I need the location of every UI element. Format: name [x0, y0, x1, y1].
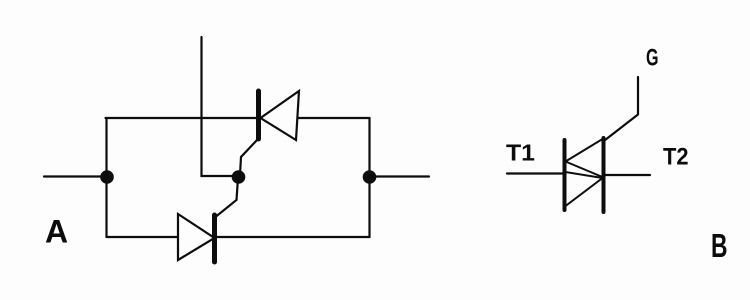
- svg-text:T1: T1: [506, 140, 535, 166]
- node: left junction dot: [100, 170, 114, 184]
- wire: gate feed vertical from top: [202, 37, 239, 176]
- triac B upper triangle (apex on left bar): [566, 139, 603, 177]
- thyristor SCR1 cathode bar: [256, 91, 261, 139]
- wire: T1 lead of triac B: [507, 172, 565, 174]
- wire: SCR2 gate lead to center node: [216, 178, 238, 217]
- thyristor SCR2 cathode bar: [212, 215, 217, 262]
- svg-text:T2: T2: [663, 144, 689, 171]
- wire: right vertical side of loop A: [368, 118, 370, 237]
- wire: right external lead of circuit A: [370, 175, 430, 177]
- svg-text:G: G: [646, 45, 659, 72]
- wire: bottom rail left segment (to SCR2 anode): [107, 236, 179, 238]
- wire: top rail right segment (from SCR1 anode): [298, 117, 370, 119]
- triac B right electrode bar: [602, 138, 606, 212]
- wire: left vertical side of loop A: [105, 118, 107, 237]
- wire: left external lead of circuit A: [44, 175, 106, 177]
- svg-text:B: B: [711, 227, 728, 264]
- triac B lower triangle (apex on right bar): [566, 172, 603, 206]
- wire: bottom rail right segment (from SCR2 cathode bar): [215, 236, 370, 238]
- wire: top rail left segment (to SCR1 cathode bar): [106, 117, 259, 119]
- svg-text:A: A: [45, 214, 68, 250]
- thyristor SCR1 triangle (points left): [261, 91, 300, 140]
- wire: gate lead G of triac B: [603, 77, 639, 142]
- triac B left electrode bar: [563, 140, 567, 210]
- wire: T2 lead of triac B: [604, 174, 650, 176]
- node: right junction dot: [363, 170, 377, 184]
- node: center gate junction dot: [232, 170, 246, 184]
- wire: SCR1 gate lead to center node: [240, 140, 257, 175]
- thyristor SCR2 triangle (points right): [178, 214, 215, 260]
